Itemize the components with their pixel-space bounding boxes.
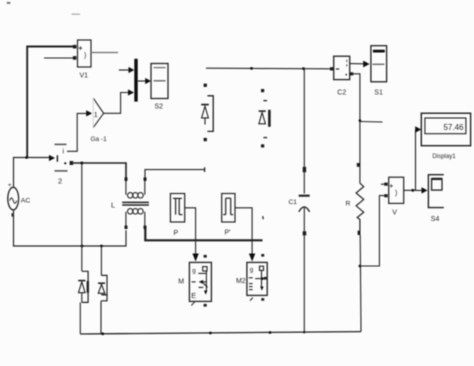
display Display1	[421, 113, 470, 160]
wire C1 bottom to rail	[303, 231, 307, 332]
voltmeter V	[381, 177, 404, 216]
wire mux input 1	[119, 67, 135, 73]
svg-text:i: i	[63, 149, 65, 156]
wire P' output to MOSFET M2 gate	[235, 208, 263, 262]
scope S1	[371, 46, 387, 97]
svg-text:57.46: 57.46	[443, 123, 464, 132]
svg-text:): )	[84, 53, 86, 60]
pulse generator P'	[222, 194, 235, 237]
wire V output to scope S4 and Display1	[404, 126, 428, 193]
svg-text:AC: AC	[21, 198, 31, 205]
gain Ga-1	[91, 98, 108, 143]
MOSFET M	[178, 255, 211, 307]
svg-text:+: +	[8, 182, 12, 189]
wire C1 branch from top rail to bottom rail	[303, 69, 306, 194]
diode D3	[78, 271, 89, 302]
wire DC bus top rail	[206, 67, 330, 70]
wire diode D3 top drop	[81, 163, 83, 271]
wire V minus sense	[359, 196, 384, 266]
scan smudge top-left	[7, 2, 11, 4]
svg-text:1: 1	[94, 112, 98, 119]
mux	[134, 59, 137, 102]
svg-text:P: P	[174, 230, 179, 237]
node breaker output / wire to transformer primary top	[70, 161, 126, 181]
wire gain output to mux input 2	[104, 89, 134, 113]
wire C2 minus down to resistor R	[353, 74, 382, 183]
voltmeter C2	[330, 56, 353, 96]
svg-text:g: g	[250, 267, 254, 274]
diode D2	[259, 89, 271, 148]
svg-text:g: g	[192, 267, 196, 274]
wire AC top to breaker input	[14, 155, 56, 187]
wire diode D4 top drop	[100, 246, 102, 276]
svg-text:S1: S1	[374, 90, 383, 97]
svg-text:M: M	[178, 279, 184, 286]
wire i output up to gain input	[67, 110, 92, 151]
svg-text:+: +	[78, 43, 83, 52]
wire P output to MOSFET M gate	[185, 208, 199, 262]
voltmeter V1	[73, 40, 91, 80]
diode D1	[201, 84, 213, 142]
diode D4	[98, 275, 107, 300]
svg-text:2: 2	[58, 177, 62, 186]
scope S2	[151, 64, 168, 111]
AC source	[8, 182, 31, 217]
svg-text:V: V	[392, 210, 397, 217]
svg-text:S2: S2	[155, 104, 164, 111]
svg-text:S4: S4	[431, 216, 440, 223]
transformer L	[111, 177, 149, 229]
wire diode D3 bottom drop	[79, 302, 81, 334]
svg-text:): )	[395, 190, 397, 197]
svg-text:Ga -1: Ga -1	[91, 136, 108, 143]
wire transformer secondary top (open ended)	[145, 167, 205, 181]
wire R bottom to rail corner	[359, 235, 362, 332]
wire V1 output stub	[91, 52, 118, 54]
wire mux output to scope S2	[138, 78, 151, 84]
wire primary return rail	[14, 210, 127, 247]
breaker / current measurement block B	[55, 144, 68, 185]
svg-text:R: R	[346, 201, 351, 208]
scan dash top	[72, 13, 81, 15]
svg-text:Display1: Display1	[432, 153, 456, 160]
svg-text:M2: M2	[236, 278, 246, 285]
wire secondary bottom rail (thick)	[145, 229, 262, 240]
svg-text:E: E	[191, 291, 196, 300]
svg-text:C2: C2	[337, 90, 346, 97]
wire bottom common rail	[80, 331, 361, 335]
svg-text:V1: V1	[80, 73, 89, 80]
svg-text:+: +	[389, 183, 393, 190]
svg-text:L: L	[111, 201, 115, 210]
svg-text:P': P'	[225, 230, 231, 237]
svg-text:C1: C1	[289, 199, 298, 206]
wire C2 output to scope S1	[350, 61, 370, 68]
capacitor C1	[289, 196, 310, 232]
wire diode D4 bottom drop	[100, 301, 102, 334]
wire V1 minus stub	[44, 57, 73, 59]
resistor R	[346, 183, 364, 235]
wire V1 plus input (thick L from node A down to AC top wire)	[27, 47, 73, 158]
pulse generator P	[170, 194, 184, 238]
scope S4	[428, 175, 443, 223]
MOSFET M2	[236, 254, 267, 301]
